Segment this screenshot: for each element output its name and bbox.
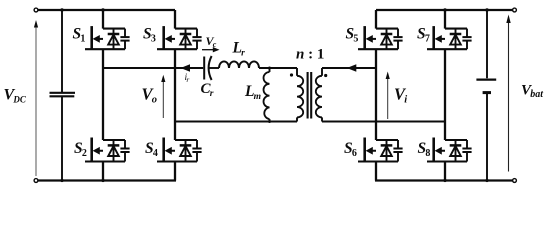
svg-text:Lm: Lm <box>244 83 261 102</box>
svg-text:S6: S6 <box>344 140 357 159</box>
svg-text:S8: S8 <box>418 140 431 159</box>
svg-text:n : 1: n : 1 <box>296 47 324 63</box>
svg-text:Vbat: Vbat <box>521 83 544 101</box>
svg-text:S3: S3 <box>143 26 156 45</box>
svg-text:Vc: Vc <box>206 34 217 49</box>
svg-text:S5: S5 <box>346 26 359 45</box>
svg-text:Cr: Cr <box>201 81 214 99</box>
svg-text:Vo: Vo <box>142 85 157 106</box>
svg-text:Vi: Vi <box>394 85 407 106</box>
svg-text:S1: S1 <box>73 26 86 45</box>
svg-text:VDC: VDC <box>4 87 27 105</box>
svg-text:Lr: Lr <box>232 40 246 59</box>
svg-text:S2: S2 <box>74 140 87 159</box>
svg-text:ir: ir <box>185 73 190 84</box>
svg-text:S4: S4 <box>145 140 158 159</box>
svg-text:S7: S7 <box>417 26 430 45</box>
